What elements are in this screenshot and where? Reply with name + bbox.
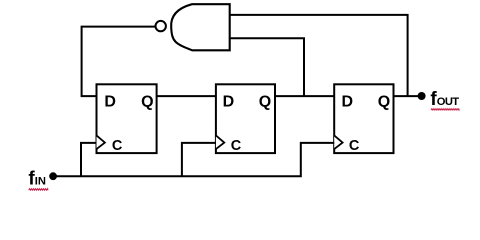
- svg-text:Q: Q: [378, 93, 390, 110]
- d-flip-flop FF1 box: [97, 84, 157, 153]
- wire: FF2 Q to FF3 D: [275, 95, 334, 97]
- wire: fIN clock bus along bottom to FF3 C: [53, 143, 334, 176]
- d-flip-flop FF3 box: [334, 84, 393, 153]
- spellcheck squiggle under fIN: [29, 189, 48, 191]
- svg-text:Q: Q: [259, 93, 271, 110]
- svg-text:C: C: [112, 138, 123, 154]
- svg-text:C: C: [349, 138, 360, 154]
- svg-text:D: D: [104, 93, 116, 110]
- svg-text:D: D: [223, 93, 235, 110]
- d-flip-flop FF2 box: [216, 84, 275, 153]
- wire: nand upper input from fOUT node: [230, 15, 408, 96]
- FF1 clock edge triangle: [97, 135, 105, 149]
- svg-text:Q: Q: [141, 93, 153, 110]
- wire: nand lower input from Q2 net: [230, 38, 304, 96]
- wire: clock branch to FF1 C: [81, 143, 97, 176]
- svg-text:D: D: [342, 93, 354, 110]
- spellcheck squiggle under fOUT: [431, 109, 459, 111]
- wire: U1 output to FF1 D input: [82, 27, 156, 97]
- wire: FF1 Q to FF2 D: [157, 95, 216, 97]
- node fIN terminal dot: [49, 172, 57, 180]
- FF3 clock edge triangle: [334, 135, 342, 149]
- node fOUT terminal dot: [418, 92, 426, 100]
- wire: clock branch to FF2 C: [182, 143, 216, 176]
- nand gate U1 output bubble: [156, 21, 166, 31]
- nand gate U1 (mirrored, output left): [171, 4, 230, 50]
- svg-text:C: C: [231, 138, 242, 154]
- FF2 clock edge triangle: [216, 135, 224, 149]
- wire: FF3 Q to fOUT node: [394, 95, 422, 97]
